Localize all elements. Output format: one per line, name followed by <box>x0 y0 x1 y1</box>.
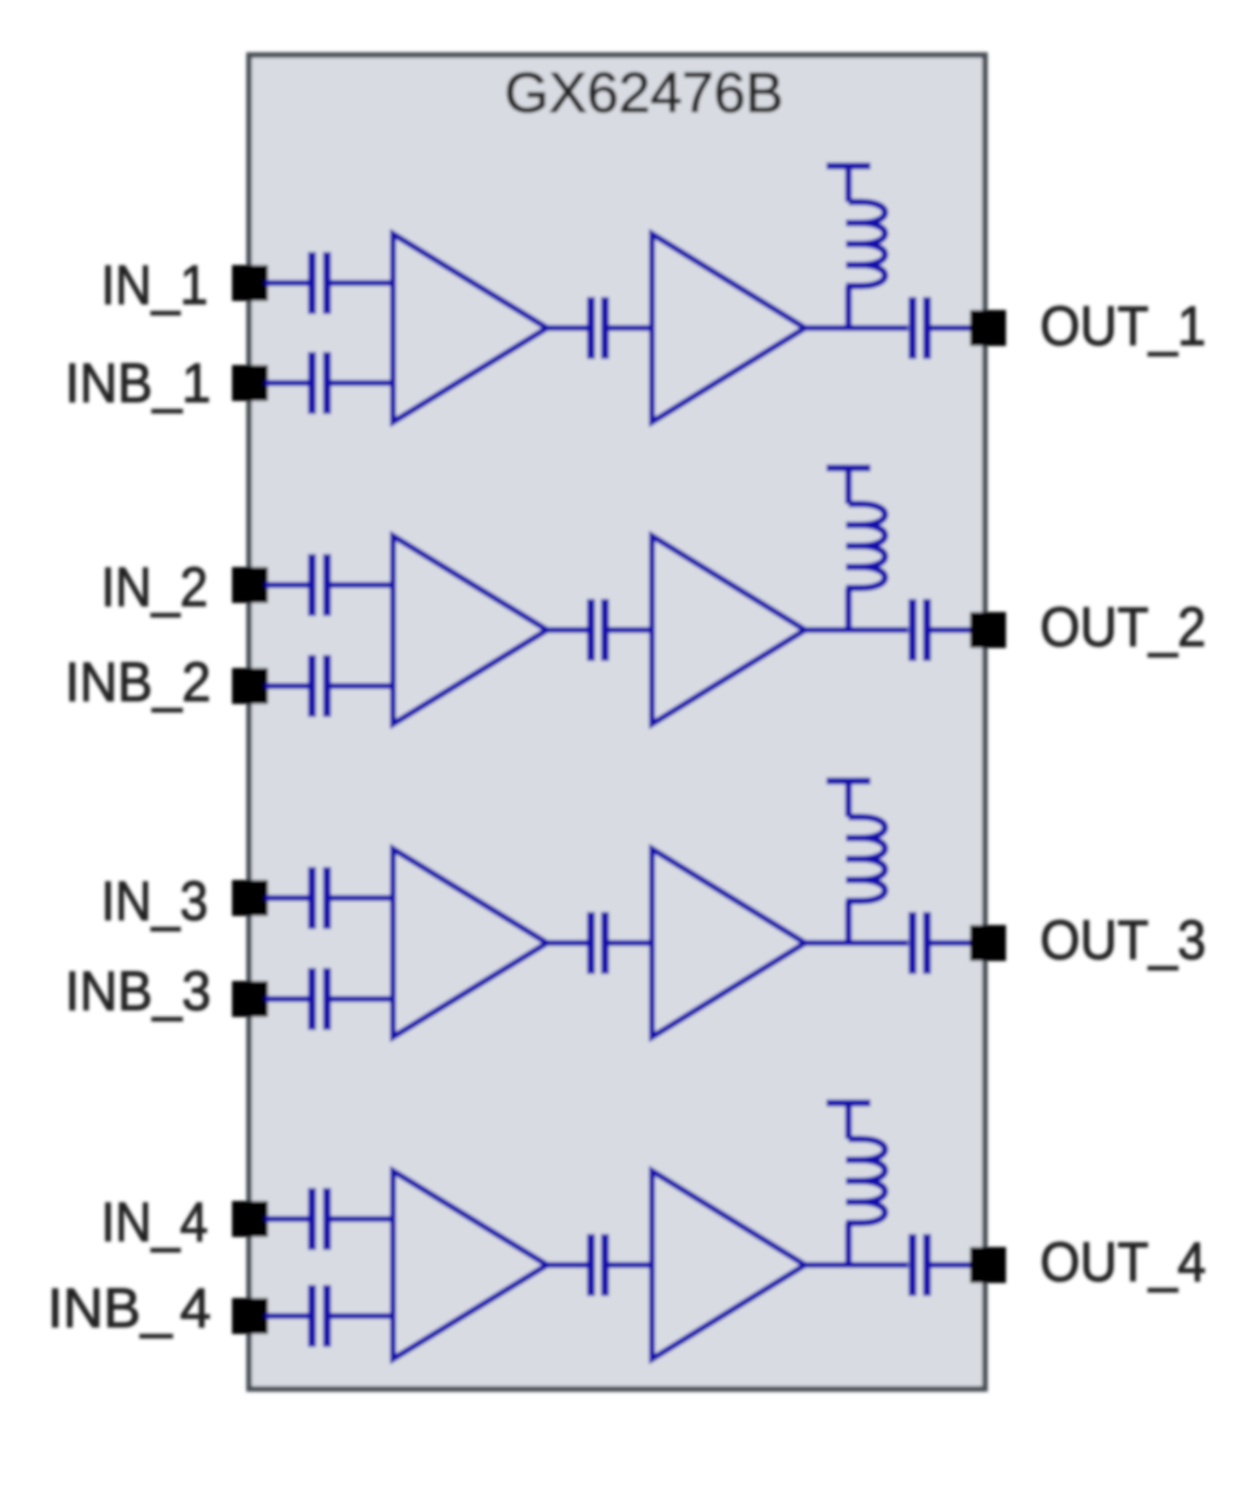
pin INB_2 <box>232 668 268 704</box>
wire amp A2a output to interstage cap <box>547 627 587 633</box>
capacitor input coupling C on INB_1 <box>312 352 327 414</box>
op-amp A2a first stage amplifier <box>393 536 547 724</box>
op-amp A4a first stage amplifier <box>393 1171 547 1359</box>
capacitor input coupling C on INB_3 <box>312 968 327 1030</box>
wire cap to amp A3a (IN) <box>331 895 393 901</box>
inductor L4 bias choke to supply stub <box>827 1103 886 1267</box>
wire interstage cap to amp A2b <box>609 627 652 633</box>
chip body GX62476B <box>249 55 985 1389</box>
wire amp A1b output to output cap (node with inductor) <box>805 325 908 331</box>
capacitor output coupling channel 4 <box>913 1234 928 1296</box>
wire cap to amp A3a (INB) <box>331 996 393 1002</box>
capacitor interstage coupling channel 4 <box>591 1234 605 1296</box>
wire cap to amp A4a (IN) <box>331 1216 393 1222</box>
wire IN_2 pin to coupling cap <box>265 582 308 588</box>
capacitor input coupling C on IN_3 <box>312 867 327 929</box>
wire cap to amp A1a (IN) <box>331 280 393 286</box>
op-amp A1b second stage amplifier <box>652 234 805 422</box>
svg-text:OUT_1: OUT_1 <box>1040 294 1206 357</box>
op-amp A4b second stage amplifier <box>652 1171 805 1359</box>
wire output cap to OUT_4 pin <box>931 1262 973 1268</box>
svg-text:IN_2: IN_2 <box>101 555 208 618</box>
wire output cap to OUT_3 pin <box>931 940 973 946</box>
pin IN_1 <box>232 265 268 301</box>
wire cap to amp A2a (INB) <box>331 683 393 689</box>
wire cap to amp A4a (INB) <box>331 1313 393 1319</box>
capacitor input coupling C on INB_2 <box>312 655 327 717</box>
pin OUT_2 <box>970 612 1006 648</box>
svg-text:INB_3: INB_3 <box>65 959 211 1022</box>
pin IN_4 <box>232 1201 268 1237</box>
svg-text:INB_4: INB_4 <box>47 1276 211 1339</box>
pin INB_3 <box>232 981 268 1017</box>
wire amp A4a output to interstage cap <box>547 1262 587 1268</box>
pin IN_2 <box>232 567 268 603</box>
capacitor interstage coupling channel 1 <box>591 297 605 359</box>
wire INB_4 pin to coupling cap <box>265 1313 308 1319</box>
capacitor interstage coupling channel 3 <box>591 912 605 974</box>
wire amp A3a output to interstage cap <box>547 940 587 946</box>
wire output cap to OUT_1 pin <box>931 325 973 331</box>
wire cap to amp A2a (IN) <box>331 582 393 588</box>
capacitor input coupling C on IN_4 <box>312 1188 327 1250</box>
capacitor output coupling channel 3 <box>913 912 928 974</box>
svg-text:INB_2: INB_2 <box>65 650 211 713</box>
op-amp A3a first stage amplifier <box>393 849 547 1037</box>
wire IN_1 pin to coupling cap <box>265 280 308 286</box>
svg-text:IN_1: IN_1 <box>101 253 208 316</box>
pin OUT_3 <box>970 925 1006 961</box>
capacitor output coupling channel 2 <box>913 599 928 661</box>
svg-text:OUT_2: OUT_2 <box>1040 595 1206 658</box>
pin INB_1 <box>232 365 268 401</box>
wire output cap to OUT_2 pin <box>931 627 973 633</box>
pin OUT_4 <box>970 1247 1006 1283</box>
svg-text:GX62476B: GX62476B <box>505 61 784 125</box>
wire INB_2 pin to coupling cap <box>265 683 308 689</box>
wire interstage cap to amp A1b <box>609 325 652 331</box>
wire interstage cap to amp A4b <box>609 1262 652 1268</box>
capacitor input coupling C on IN_1 <box>312 252 327 314</box>
wire IN_4 pin to coupling cap <box>265 1216 308 1222</box>
wire amp A3b output to output cap (node with inductor) <box>805 940 908 946</box>
pin INB_4 <box>232 1298 268 1334</box>
pin OUT_1 <box>970 310 1006 346</box>
wire amp A4b output to output cap (node with inductor) <box>805 1262 908 1268</box>
wire amp A2b output to output cap (node with inductor) <box>805 627 908 633</box>
capacitor input coupling C on INB_4 <box>312 1285 327 1347</box>
svg-text:OUT_3: OUT_3 <box>1040 908 1206 971</box>
wire cap to amp A1a (INB) <box>331 380 393 386</box>
wire interstage cap to amp A3b <box>609 940 652 946</box>
svg-text:IN_4: IN_4 <box>101 1190 208 1253</box>
op-amp A3b second stage amplifier <box>652 849 805 1037</box>
op-amp A2b second stage amplifier <box>652 536 805 724</box>
svg-text:IN_3: IN_3 <box>101 869 208 932</box>
wire amp A1a output to interstage cap <box>547 325 587 331</box>
inductor L1 bias choke to supply stub <box>827 166 886 330</box>
inductor L2 bias choke to supply stub <box>827 468 886 632</box>
capacitor interstage coupling channel 2 <box>591 599 605 661</box>
pin IN_3 <box>232 880 268 916</box>
capacitor output coupling channel 1 <box>913 297 928 359</box>
wire IN_3 pin to coupling cap <box>265 895 308 901</box>
wire INB_3 pin to coupling cap <box>265 996 308 1002</box>
svg-text:INB_1: INB_1 <box>65 351 211 414</box>
svg-text:OUT_4: OUT_4 <box>1040 1230 1206 1293</box>
capacitor input coupling C on IN_2 <box>312 554 327 616</box>
op-amp A1a first stage amplifier <box>393 234 547 422</box>
wire INB_1 pin to coupling cap <box>265 380 308 386</box>
inductor L3 bias choke to supply stub <box>827 781 886 945</box>
